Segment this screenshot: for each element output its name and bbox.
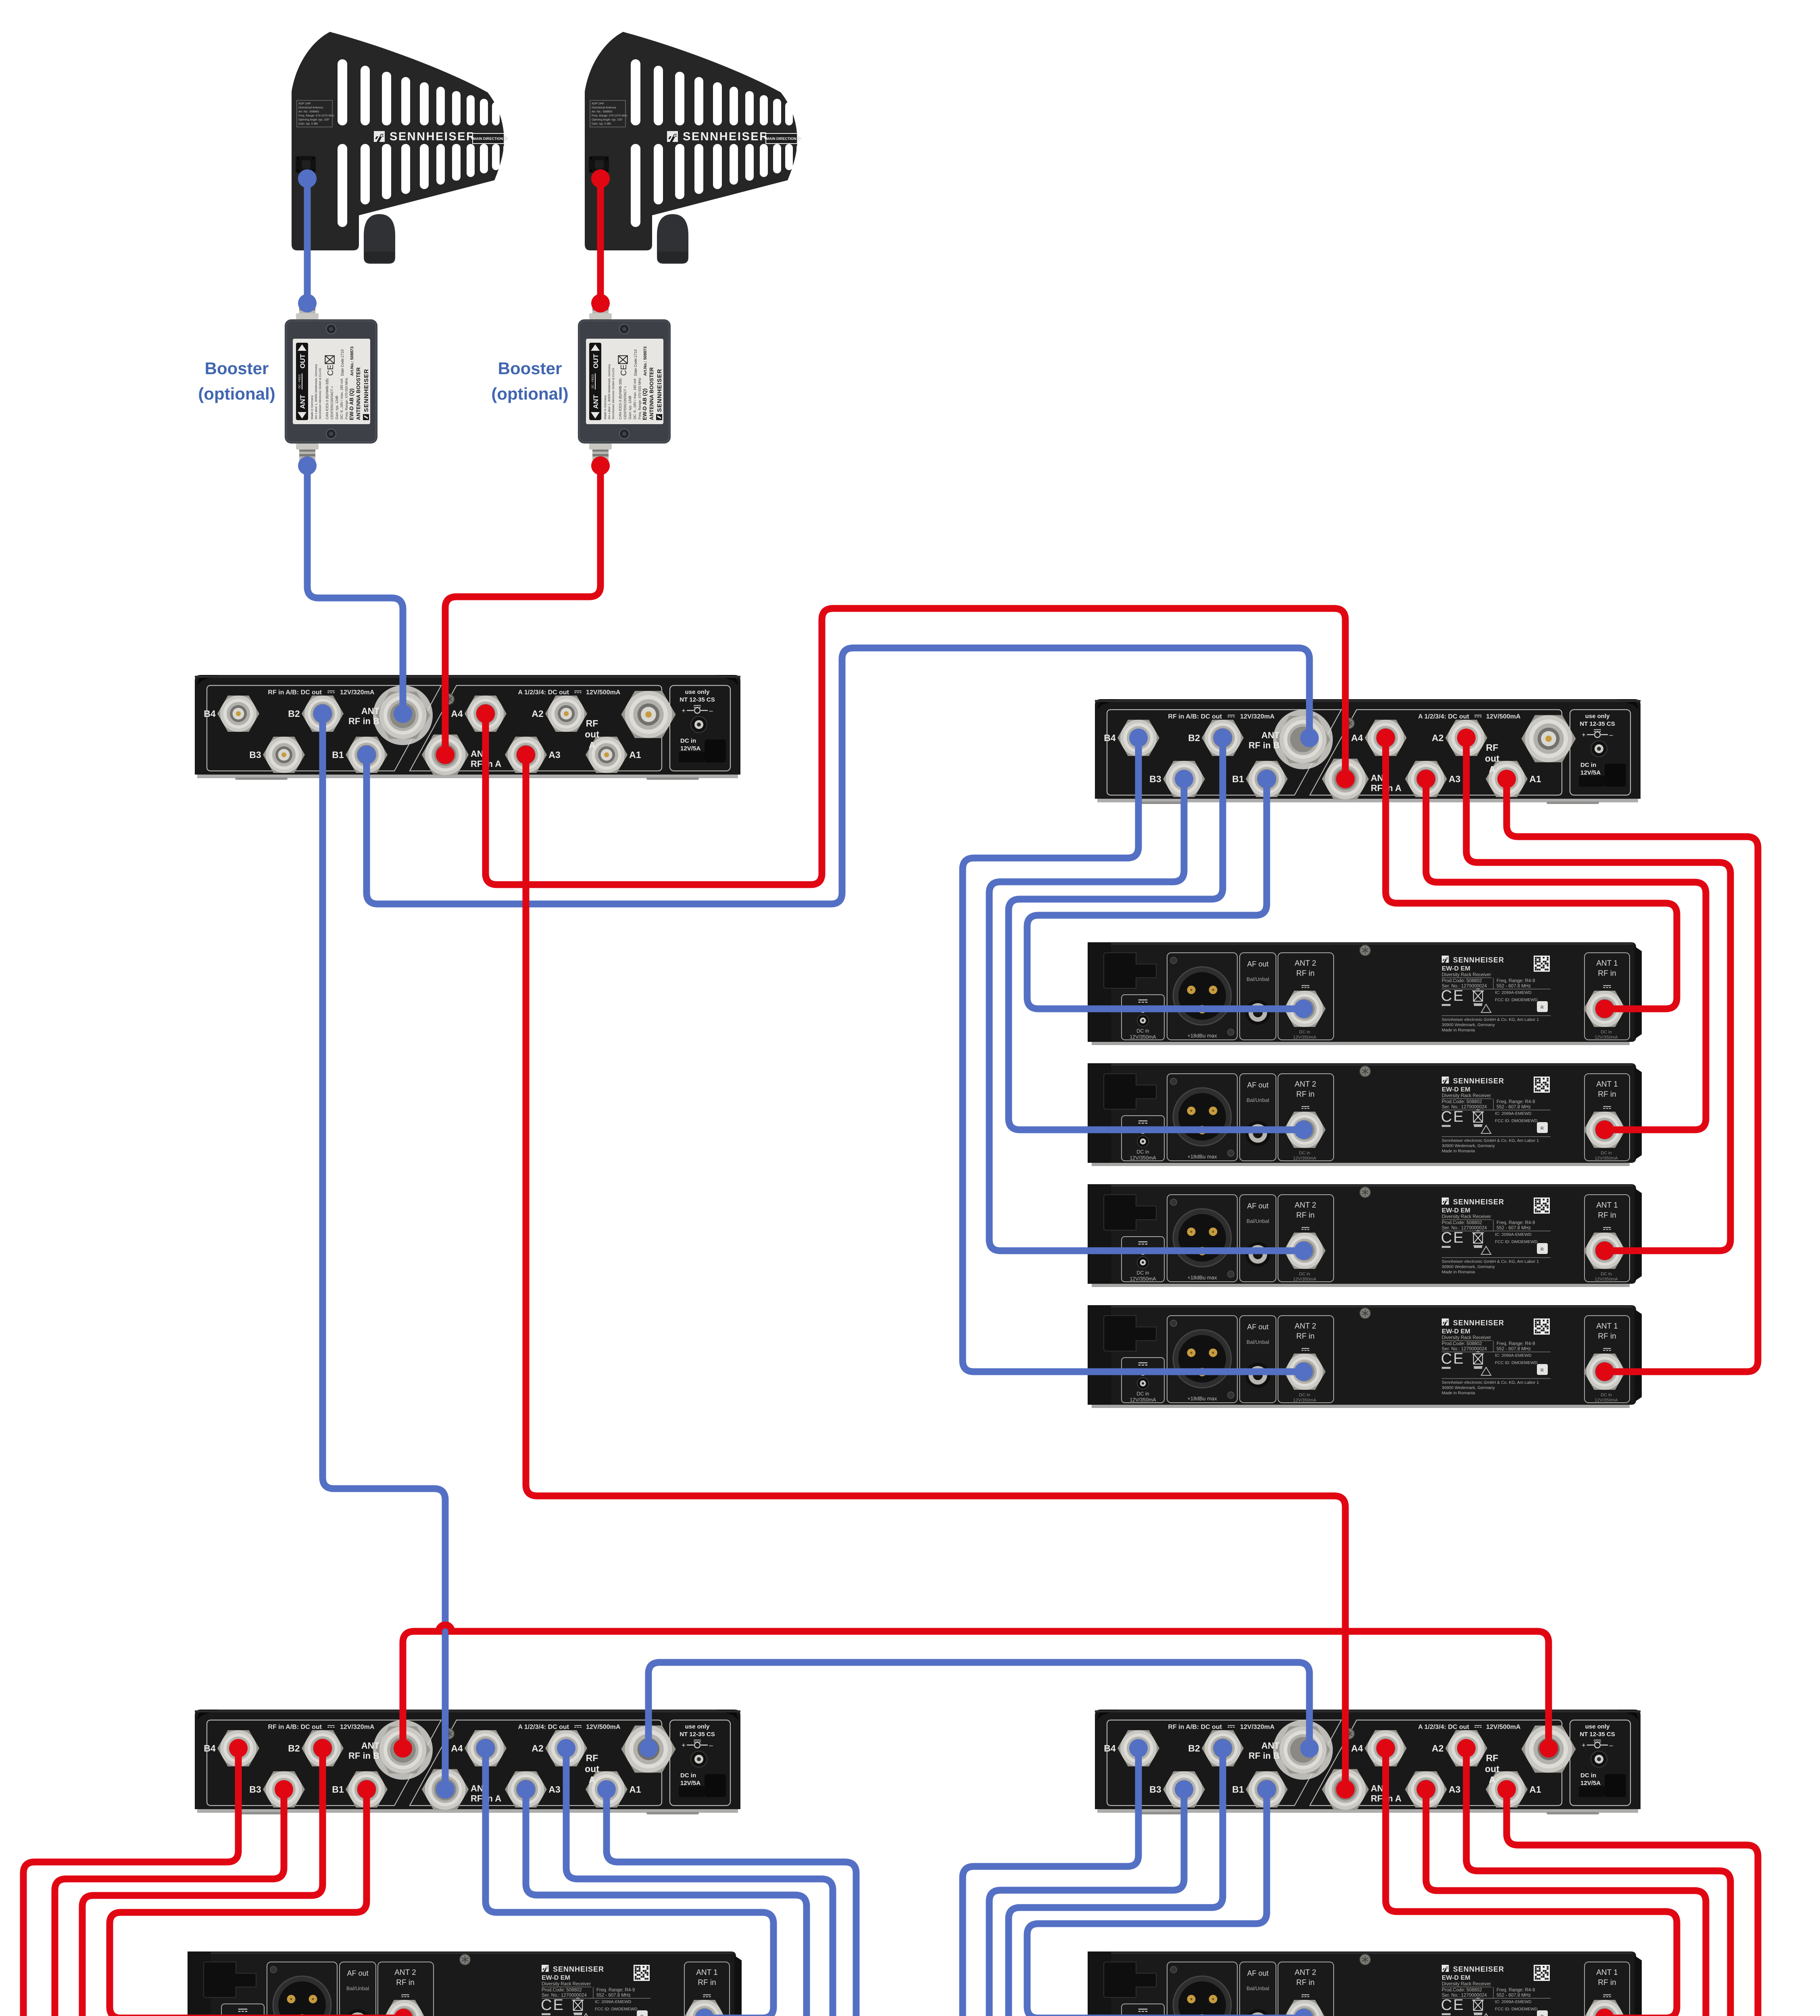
wire S3 B4 to RX8 ANT2 (red) <box>23 1748 403 2016</box>
connection dots <box>229 169 1614 2016</box>
wire booster B to splitter S1 ANT RF in A (red) <box>445 466 600 755</box>
label Booster (optional) left <box>198 359 275 403</box>
svg-text:Booster: Booster <box>205 359 269 378</box>
wire S3 B2 to RX6 ANT2 (red) <box>82 1748 403 2016</box>
svg-text:Booster: Booster <box>498 359 562 378</box>
wire S2 B4 to RX4 ANT2 (blue) <box>963 738 1303 1372</box>
wire S2 A4 to RX1 ANT1 (red) <box>1386 738 1677 1009</box>
wire S2 A1 to RX4 ANT1 (red) <box>1507 779 1758 1372</box>
receiver RX1 (top right) EW-D EM <box>1088 942 1642 1045</box>
wire S4 B4 to RX12 ANT2 (blue) <box>963 1748 1303 2016</box>
receiver RX4 (top right) EW-D EM <box>1088 1305 1642 1408</box>
wire S4 B2 to RX10 ANT2 (blue) <box>1009 1748 1303 2016</box>
receiver RX2 (top right) EW-D EM <box>1088 1063 1642 1166</box>
wire S4 RF out A to S3 ANT RF in B (red, hop over blue) <box>403 1625 1549 1748</box>
wire S2 B1 to RX1 ANT2 (blue) <box>1027 779 1303 1009</box>
wire S1 B1 to S2 ANT RF in B (blue) <box>367 648 1309 904</box>
receiver RX3 (top right) EW-D EM <box>1088 1184 1642 1287</box>
wire S3 A4 to RX5 ANT1 (blue) <box>486 1748 773 2016</box>
wire booster A to splitter S1 ANT RF in B (blue) <box>307 466 403 714</box>
wire S2 B2 to RX2 ANT2 (blue) <box>1009 738 1303 1130</box>
wire antenna B to booster B (red) <box>597 179 604 303</box>
wire S3 RF out A to S4 ANT RF in B (blue) <box>648 1662 1309 1748</box>
booster B (right, optional) <box>578 300 671 464</box>
wire S4 B1 to RX9 ANT2 (blue) <box>1027 1789 1303 2016</box>
booster A (left, optional) <box>285 300 377 464</box>
svg-text:(optional): (optional) <box>491 384 568 403</box>
directional antenna B (right) <box>585 32 824 264</box>
wire S4 A3 to RX10 ANT1 (red) <box>1426 1789 1706 2016</box>
wire S4 A1 to RX12 ANT1 (red) <box>1507 1789 1758 2016</box>
antenna splitter S3 <box>195 1710 740 1814</box>
wire S4 A4 to RX9 ANT1 (red) <box>1386 1748 1677 2016</box>
label Booster (optional) right <box>491 359 568 403</box>
wire antenna A to booster A (blue) <box>304 179 311 303</box>
wire S3 A3 to RX6 ANT1 (blue) <box>526 1789 807 2016</box>
wire S3 B3 to RX7 ANT2 (red) <box>55 1789 403 2016</box>
wire S2 B3 to RX3 ANT2 (blue) <box>989 779 1303 1251</box>
wire S3 A1 to RX8 ANT1 (blue) <box>607 1789 856 2016</box>
wire S3 A2 to RX7 ANT1 (blue) <box>566 1748 833 2016</box>
wire S2 A3 to RX2 ANT1 (red) <box>1426 779 1706 1130</box>
directional antenna A (left) <box>292 32 531 264</box>
wire S4 B3 to RX11 ANT2 (blue) <box>989 1789 1303 2016</box>
antenna splitter S2 <box>1095 699 1641 804</box>
receiver RX9 (bottom right) EW-D EM <box>1088 1951 1642 2016</box>
wire S1 A4 to S2 ANT RF in A (red) <box>486 608 1345 885</box>
wire S2 A2 to RX3 ANT1 (red) <box>1466 738 1730 1251</box>
wire S4 A2 to RX11 ANT1 (red) <box>1466 1748 1730 2016</box>
wire S1 A3 to S4 ANT RF in A (red) <box>526 755 1345 1789</box>
wire S3 B1 to RX5 ANT2 (red) <box>110 1789 403 2016</box>
svg-text:(optional): (optional) <box>198 384 275 403</box>
wire S1 B2 to S3 ANT RF in A (blue) <box>323 714 445 1789</box>
antenna splitter S1 <box>195 675 740 780</box>
receiver RX5 (bottom left) EW-D EM <box>188 1951 742 2016</box>
antenna splitter S4 <box>1095 1710 1641 1814</box>
